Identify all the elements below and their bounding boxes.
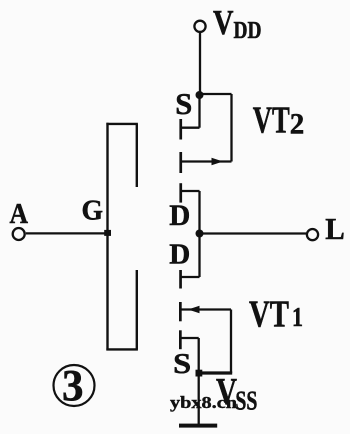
svg-text:D: D — [169, 239, 190, 270]
svg-text:ybx8.cn: ybx8.cn — [170, 393, 238, 412]
svg-text:VT: VT — [249, 294, 289, 336]
svg-text:A: A — [10, 198, 29, 230]
svg-text:V: V — [213, 3, 234, 42]
svg-text:3: 3 — [62, 361, 84, 410]
svg-text:L: L — [325, 211, 345, 246]
svg-text:1: 1 — [292, 302, 303, 332]
svg-text:G: G — [82, 195, 104, 226]
svg-text:D: D — [169, 199, 190, 232]
svg-text:SS: SS — [235, 386, 257, 416]
svg-text:VT: VT — [253, 100, 290, 142]
svg-text:2: 2 — [290, 108, 305, 141]
svg-text:S: S — [175, 86, 192, 121]
svg-text:S: S — [173, 348, 191, 380]
svg-text:DD: DD — [234, 18, 262, 44]
